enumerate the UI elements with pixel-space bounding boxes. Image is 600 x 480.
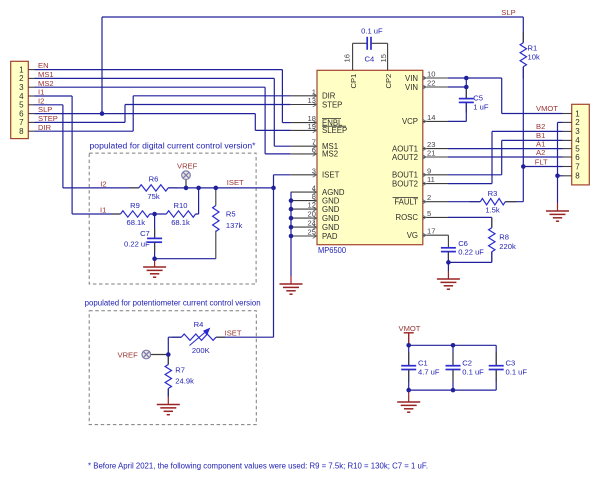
wire MS1 vertical: [273, 78, 275, 146]
svg-text:R10: R10: [174, 201, 188, 210]
wire FAULT pin to R3: [448, 201, 480, 203]
wire R5 bottom lead (black): [215, 231, 217, 259]
svg-text:I1: I1: [38, 88, 44, 97]
capacitor C6: [441, 248, 456, 252]
wire C1 bottom lead: [408, 370, 410, 391]
svg-text:C2: C2: [462, 359, 472, 368]
wire C2 top lead: [452, 345, 454, 365]
svg-text:2: 2: [575, 118, 580, 127]
wire R9 to R10: [150, 213, 167, 215]
svg-text:0.1 uF: 0.1 uF: [462, 367, 484, 376]
junction R9/R10/C7: [152, 212, 157, 217]
wire B1 to pin4: [502, 139, 563, 141]
wire ISET into pot box: [216, 336, 274, 338]
svg-text:populated for digital current: populated for digital current control ve…: [90, 141, 256, 150]
wire VIN pin10: [448, 77, 502, 79]
svg-text:STEP: STEP: [322, 100, 342, 109]
right header pin 2 stub: [563, 121, 572, 123]
pin 17 stub (VG): [423, 234, 448, 236]
svg-text:1.5k: 1.5k: [485, 206, 500, 215]
left header pin 6 stub: [28, 113, 34, 115]
pin 12 stub (GND): [291, 208, 317, 210]
svg-text:0.22 uF: 0.22 uF: [124, 239, 150, 248]
junction bottom rail ground: [406, 388, 411, 393]
svg-text:137k: 137k: [226, 221, 243, 230]
junction VREF tap: [184, 186, 189, 191]
svg-text:1: 1: [19, 65, 24, 74]
wire ROSC to R8: [491, 217, 493, 227]
connector J-motor (right 8-pin header): [572, 104, 590, 185]
junction GND bus pin 20: [289, 216, 294, 221]
svg-text:R6: R6: [149, 175, 159, 184]
wire STEP vertical: [124, 105, 126, 123]
svg-text:9: 9: [427, 166, 431, 175]
right header pin 6 stub: [563, 156, 572, 158]
wire SLP to R1 top: [522, 17, 524, 43]
svg-text:R3: R3: [488, 189, 498, 198]
ground stem R7: [167, 397, 169, 405]
wire cap bank bottom rail: [409, 389, 497, 391]
wire DIR to pin 1: [133, 95, 290, 97]
wire R8 to C6 node: [448, 261, 491, 263]
svg-text:R7: R7: [175, 366, 185, 375]
resistor R5: [213, 206, 219, 232]
right header pin 7 stub: [563, 166, 572, 168]
right header pin 1 stub: [563, 113, 572, 115]
junction GND bus pin 12: [289, 207, 294, 212]
pin 3 stub (ISET): [291, 174, 317, 176]
wire C1 top lead: [408, 345, 410, 365]
ground stem under IC: [290, 276, 292, 284]
svg-text:ROSC: ROSC: [395, 213, 418, 222]
svg-text:200K: 200K: [192, 346, 210, 355]
svg-text:1 uF: 1 uF: [473, 102, 489, 111]
pin 10 stub (VIN): [423, 77, 448, 79]
svg-text:DIR: DIR: [38, 123, 52, 132]
svg-text:13: 13: [308, 96, 316, 105]
svg-text:VG: VG: [407, 231, 418, 240]
junction VIN/C5: [464, 76, 469, 81]
pin 6 stub (MS2): [291, 153, 317, 155]
wire SLP to SLEEP pin: [255, 129, 290, 131]
wire EN to ENBL pin: [282, 122, 290, 124]
svg-text:I2: I2: [100, 180, 106, 189]
svg-text:VREF: VREF: [118, 350, 139, 359]
junction ISET: [271, 186, 276, 191]
wire pin8 to ground: [557, 176, 559, 203]
pin 9 stub (BOUT1): [423, 174, 448, 176]
junction VIN2/C5: [464, 85, 469, 90]
svg-text:GND: GND: [322, 205, 340, 214]
potentiometer R4 body: [181, 334, 216, 340]
svg-text:75k: 75k: [147, 192, 159, 201]
pin 16 stub (CP1): [352, 43, 354, 70]
svg-text:3: 3: [575, 127, 580, 136]
svg-text:3: 3: [19, 83, 24, 92]
pin 13 stub (STEP): [291, 104, 317, 106]
svg-text:I2: I2: [38, 96, 44, 105]
pin 24 stub (GND): [291, 226, 317, 228]
svg-text:DIR: DIR: [322, 92, 336, 101]
svg-text:22: 22: [427, 79, 435, 88]
capacitor C4: [367, 37, 371, 50]
pin 11 stub (BOUT2): [423, 183, 448, 185]
wire R7 top lead: [167, 355, 169, 365]
wire EN vertical: [281, 70, 283, 123]
wire VIN to C5 top: [465, 78, 467, 99]
wire MS2 to pin 6: [265, 153, 291, 155]
connector J-logic (left 8-pin header): [11, 61, 29, 138]
wire I1 vertical: [71, 96, 73, 214]
junction C6/R8/ground: [446, 260, 451, 265]
wire C2 bottom lead: [452, 370, 454, 391]
resistor R3: [480, 199, 505, 205]
left header pin 5 stub: [28, 104, 34, 106]
pin 7 stub (MS1): [291, 145, 317, 147]
wire to C7: [154, 214, 156, 238]
pin 14 stub (VCP): [423, 120, 448, 122]
wire R10 riser: [198, 188, 200, 214]
wire C3 bottom lead: [495, 370, 497, 391]
wire DIR horizontal: [35, 130, 134, 132]
svg-text:ISET: ISET: [225, 328, 242, 337]
pin 5 stub (ROSC): [423, 216, 448, 218]
svg-text:19: 19: [308, 122, 316, 131]
wire BOUT2 riser: [491, 131, 493, 183]
wire I2 vertical: [62, 105, 64, 188]
svg-text:R8: R8: [499, 233, 509, 242]
wire STEP to pin 13: [125, 104, 291, 106]
junction GND bus pin 8: [289, 198, 294, 203]
svg-text:5: 5: [19, 101, 24, 110]
resistor R8: [489, 228, 495, 252]
wire C4 to CP2: [371, 42, 388, 44]
wire BOUT1 horizontal: [448, 174, 502, 176]
svg-text:220k: 220k: [499, 242, 516, 251]
dashed box: potentiometer current control: [89, 311, 256, 425]
svg-text:24.9k: 24.9k: [175, 377, 194, 386]
pin 1 stub (DIR): [291, 95, 317, 97]
test point VREF (pot): [142, 350, 151, 359]
junction C2 bottom: [451, 388, 456, 393]
svg-text:C4: C4: [365, 55, 375, 64]
svg-text:21: 21: [427, 149, 435, 158]
left header pin 1 stub: [28, 69, 34, 71]
ground stem cap bank: [408, 390, 410, 402]
ground symbol below IC GND bus: [280, 284, 303, 294]
svg-text:15: 15: [379, 54, 388, 62]
svg-text:1: 1: [312, 87, 316, 96]
capacitor C1: [401, 366, 416, 370]
right header pin 3 stub: [563, 130, 572, 132]
svg-text:0.1 uF: 0.1 uF: [506, 367, 528, 376]
resistor R9: [121, 211, 150, 217]
wire SLP riser to top: [101, 17, 103, 114]
svg-text:12: 12: [308, 201, 316, 210]
ground symbol below C6: [437, 279, 460, 289]
wire AOUT2 to A2 pin6: [448, 156, 563, 158]
wire STEP horizontal: [35, 121, 126, 123]
svg-text:VCP: VCP: [402, 117, 418, 126]
resistor R10: [166, 211, 195, 217]
pin 18 stub (ENBL): [291, 122, 317, 124]
resistor R7: [165, 365, 171, 389]
wire R1 bottom to FLT node: [522, 67, 524, 167]
svg-text:C3: C3: [506, 359, 516, 368]
svg-text:16: 16: [343, 54, 352, 62]
svg-text:R4: R4: [194, 320, 204, 329]
svg-text:2: 2: [19, 74, 24, 83]
svg-text:* Before April 2021, the follo: * Before April 2021, the following compo…: [88, 462, 428, 471]
svg-text:10: 10: [427, 70, 435, 79]
resistor R1: [520, 43, 526, 67]
svg-text:populated for potentiometer cu: populated for potentiometer current cont…: [85, 298, 261, 307]
wire VMOT feed vertical: [501, 78, 503, 114]
svg-text:8: 8: [19, 127, 24, 136]
op-amp U1 MP6500 driver IC body: [317, 70, 423, 244]
wire C3 top lead: [495, 345, 497, 365]
wire GND bus vertical: [290, 192, 292, 276]
left header pin 7 stub: [28, 121, 34, 123]
pin 23 stub (AOUT1): [423, 148, 448, 150]
svg-text:MP6500: MP6500: [318, 246, 347, 255]
svg-text:BOUT2: BOUT2: [392, 179, 418, 188]
svg-text:6: 6: [19, 109, 24, 118]
junction VMOT rail: [406, 343, 411, 348]
pin 20 stub (GND): [291, 217, 317, 219]
left header pin 2 stub: [28, 77, 34, 79]
wire AOUT1 to A1 pin5: [448, 148, 563, 150]
dashed box: digital current control: [89, 153, 256, 284]
wire VG: [447, 234, 449, 236]
svg-text:VREF: VREF: [177, 162, 198, 171]
wire I1 horizontal: [35, 95, 73, 97]
capacitor C3: [489, 366, 504, 370]
svg-text:VMOT: VMOT: [399, 324, 421, 333]
svg-text:SLEEP: SLEEP: [322, 126, 347, 135]
power symbol VMOT: [404, 333, 414, 346]
svg-text:GND: GND: [322, 214, 340, 223]
wire I2 horizontal: [35, 104, 63, 106]
ground symbol below cap bank: [397, 402, 420, 412]
svg-text:10k: 10k: [528, 53, 540, 62]
svg-text:0.1 uF: 0.1 uF: [361, 27, 383, 36]
wire CP1 to C4: [353, 42, 368, 44]
svg-text:7: 7: [575, 162, 580, 171]
wire R8 bottom: [491, 252, 493, 263]
wire pin8 to GND vertical: [558, 175, 563, 177]
wire VIN pin22: [448, 86, 466, 88]
svg-text:R1: R1: [528, 44, 538, 53]
svg-text:FAULT: FAULT: [394, 198, 418, 207]
wire R4 left lead: [168, 336, 181, 338]
svg-text:6: 6: [575, 153, 580, 162]
wire MS2 vertical: [264, 87, 266, 154]
svg-text:68.1k: 68.1k: [171, 218, 190, 227]
wire BOUT1 riser: [501, 140, 503, 174]
pin 2 stub (FAULT): [423, 201, 448, 203]
wire ISET to pin 3: [274, 174, 291, 176]
left header pin 3 stub: [28, 86, 34, 88]
ground stem C7: [154, 259, 156, 267]
wire SLP vertical: [254, 114, 256, 131]
wire MS1 horizontal: [35, 77, 275, 79]
test point VREF (digital): [182, 171, 191, 180]
svg-text:ISET: ISET: [322, 171, 340, 180]
pin 21 stub (AOUT2): [423, 156, 448, 158]
junction R5 top: [214, 186, 219, 191]
test point stub: [185, 180, 187, 188]
svg-text:7: 7: [19, 118, 24, 127]
left header pin 4 stub: [28, 95, 34, 97]
svg-text:I1: I1: [100, 206, 106, 215]
svg-text:PAD: PAD: [322, 232, 338, 241]
wire MS2 horizontal: [35, 86, 266, 88]
junction GND bus pin 24: [289, 225, 294, 230]
wire I2 into digital box: [63, 187, 139, 189]
ground stem C6: [447, 271, 449, 279]
wire VCP pin14: [448, 120, 466, 122]
wire pin2 to GND vertical: [558, 121, 563, 123]
junction R10 riser: [196, 186, 201, 191]
svg-text:3: 3: [312, 166, 316, 175]
pin 15 stub (CP2): [387, 43, 389, 70]
wire C5 bottom to VCP: [465, 102, 467, 121]
wire B2 to pin3: [492, 130, 563, 132]
svg-text:5: 5: [427, 209, 431, 218]
svg-text:4.7 uF: 4.7 uF: [418, 367, 440, 376]
svg-text:11: 11: [427, 175, 435, 184]
pin 22 stub (VIN): [423, 86, 448, 88]
ground symbol in pot box: [157, 405, 180, 415]
capacitor C7: [147, 238, 162, 242]
svg-text:CP2: CP2: [384, 74, 393, 89]
svg-text:GND: GND: [322, 223, 340, 232]
svg-text:VMOT: VMOT: [536, 104, 558, 113]
left header pin 8 stub: [28, 130, 34, 132]
junction C7/R5/ground: [152, 256, 157, 261]
wire R7 bottom lead: [167, 389, 169, 397]
junction GND bus pin 25: [289, 234, 294, 239]
wire R10 right lead: [196, 213, 199, 215]
svg-text:14: 14: [427, 113, 435, 122]
pin 8 stub (GND): [291, 200, 317, 202]
wire DIR vertical: [132, 96, 134, 131]
svg-text:6: 6: [312, 145, 316, 154]
wire R3 right lead: [505, 201, 523, 203]
svg-text:1: 1: [575, 109, 580, 118]
wire FLT node down to R3: [522, 167, 524, 202]
svg-text:SLP: SLP: [38, 105, 52, 114]
wire FLT to pin7: [523, 166, 562, 168]
svg-text:MS2: MS2: [322, 150, 338, 159]
svg-text:MS1: MS1: [38, 70, 54, 79]
junction FLT node: [521, 164, 526, 169]
svg-text:A2: A2: [536, 148, 545, 157]
svg-text:R5: R5: [226, 210, 236, 219]
right header pin 5 stub: [563, 148, 572, 150]
ground symbol below right header: [546, 211, 569, 221]
svg-text:SLP: SLP: [501, 8, 515, 17]
svg-text:17: 17: [427, 227, 435, 236]
wire SLP horizontal: [35, 113, 256, 115]
svg-text:ISET: ISET: [227, 178, 244, 187]
svg-text:MS2: MS2: [38, 79, 54, 88]
wire C7 bottom: [154, 242, 156, 259]
wire VMOT to header pin1: [502, 113, 563, 115]
junction pin8 GND: [555, 174, 560, 179]
wire down to VREF node: [167, 337, 169, 354]
svg-text:VIN: VIN: [405, 83, 418, 92]
capacitor C2: [446, 366, 461, 370]
wire I1 into digital box: [72, 213, 120, 215]
svg-text:B2: B2: [536, 122, 545, 131]
svg-text:24: 24: [308, 219, 316, 228]
wire cap bank top rail: [409, 344, 497, 346]
resistor R6: [139, 185, 168, 191]
svg-text:2: 2: [427, 193, 431, 202]
svg-text:25: 25: [308, 228, 316, 237]
wire R5 top lead (black): [215, 188, 217, 206]
potentiometer R4 arrow: [190, 329, 210, 346]
wire EN horizontal: [35, 69, 283, 71]
wire to ground: [447, 262, 449, 271]
svg-text:VIN: VIN: [405, 74, 418, 83]
wire BOUT2 horizontal: [448, 183, 492, 185]
junction VREF/R7: [166, 352, 171, 357]
right header pin 4 stub: [563, 139, 572, 141]
pin 4 stub (AGND): [291, 191, 317, 193]
wire ISET row in box: [168, 187, 273, 189]
svg-text:FLT: FLT: [535, 157, 548, 166]
wire header pin2 to pin8 GND: [557, 122, 559, 175]
svg-text:8: 8: [575, 172, 580, 181]
wire C7 to R5 bottom: [155, 258, 216, 260]
ground stem right header: [557, 203, 559, 211]
wire VG to C6 (black lead): [447, 235, 449, 248]
pin 19 stub (SLEEP): [291, 129, 317, 131]
capacitor C5: [459, 99, 474, 103]
svg-text:EN: EN: [38, 61, 49, 70]
svg-text:20: 20: [308, 210, 316, 219]
wire SLP top run: [102, 16, 523, 18]
svg-text:4: 4: [19, 92, 24, 101]
svg-text:C7: C7: [140, 229, 150, 238]
svg-text:C5: C5: [473, 93, 483, 102]
svg-text:R9: R9: [130, 201, 140, 210]
junction C2 top: [451, 343, 456, 348]
wire MS1 to pin 7: [274, 145, 290, 147]
svg-text:BOUT1: BOUT1: [392, 171, 418, 180]
svg-text:C1: C1: [418, 359, 428, 368]
svg-text:STEP: STEP: [38, 114, 58, 123]
wire ISET vertical: [273, 175, 275, 337]
pin 25 stub (PAD): [291, 235, 317, 237]
svg-text:CP1: CP1: [349, 74, 358, 89]
wire C6 bottom: [447, 252, 449, 263]
svg-text:AOUT2: AOUT2: [392, 153, 418, 162]
svg-text:68.1k: 68.1k: [127, 218, 146, 227]
junction SLP branch: [100, 111, 105, 116]
svg-text:0.22 uF: 0.22 uF: [458, 248, 484, 257]
right header pin 8 stub: [563, 175, 572, 177]
test point stub (pot): [151, 354, 169, 356]
wire ROSC: [448, 216, 492, 218]
ground symbol in digital box: [143, 267, 166, 277]
